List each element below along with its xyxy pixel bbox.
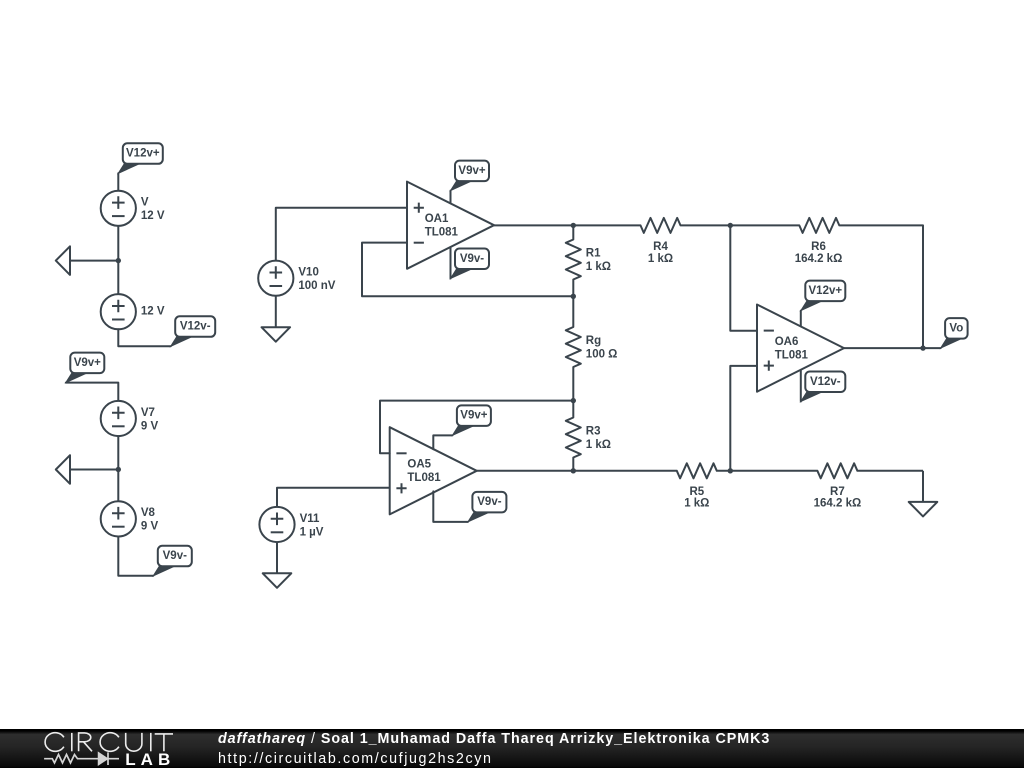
- wire V7 bottom to V8 top: [117, 436, 119, 501]
- ground at R7 right: [909, 471, 938, 517]
- wire OA1 V9v+ supply pin: [450, 191, 452, 204]
- svg-text:1 kΩ: 1 kΩ: [586, 261, 611, 273]
- svg-text:12 V: 12 V: [141, 210, 165, 222]
- wire V12v+ flag to V1 top: [117, 173, 119, 190]
- svg-text:Rg: Rg: [586, 335, 601, 347]
- junction dot R5/R7 node: [728, 468, 733, 473]
- wire V11 top to OA5 + input: [277, 488, 390, 507]
- svg-text:V11: V11: [300, 513, 320, 525]
- wire V2 bottom to V12v- flag: [118, 329, 170, 346]
- net flag V9v- (left): [153, 546, 192, 576]
- voltage source 12V (second): [101, 294, 165, 329]
- junction dot Rg bottom / R3 top: [571, 398, 576, 403]
- junction dot R4/R6 node: [728, 223, 733, 228]
- op-amp OA1 TL081: [407, 182, 494, 269]
- svg-text:100 nV: 100 nV: [298, 280, 335, 292]
- wire OA1 - input feedback to R1/Rg node: [362, 243, 573, 297]
- wire OA6 V12v- supply pin: [800, 370, 802, 402]
- net flag V9v- (OA5 supply): [468, 492, 507, 522]
- svg-text:V9v+: V9v+: [458, 165, 485, 177]
- ground under V11: [263, 542, 292, 588]
- wire V8 bottom to V9v- flag: [118, 537, 153, 576]
- op-amp OA5 TL081: [390, 427, 477, 514]
- svg-text:V9v+: V9v+: [460, 410, 487, 422]
- net flag V12v+ (OA6 supply): [801, 281, 846, 311]
- junction dot 9V midpoint: [116, 467, 121, 472]
- svg-text:164.2 kΩ: 164.2 kΩ: [795, 253, 843, 265]
- logo resistor and diode: [44, 752, 119, 765]
- resistor R4 label: [648, 241, 673, 265]
- net flag V9v- (OA1 supply): [451, 249, 490, 279]
- svg-text:TL081: TL081: [775, 349, 809, 361]
- net flag V9v+ (OA5 supply): [452, 405, 491, 435]
- svg-text:V9v-: V9v-: [460, 253, 484, 265]
- junction dot R1 bottom / Rg top: [571, 294, 576, 299]
- svg-text:V12v+: V12v+: [809, 285, 843, 297]
- svg-text:V12v-: V12v-: [810, 376, 841, 388]
- junction dot 12V midpoint: [116, 258, 121, 263]
- svg-text:1 kΩ: 1 kΩ: [684, 498, 709, 510]
- svg-text:OA5: OA5: [407, 459, 431, 471]
- wire V10 top to OA1 + input: [276, 208, 407, 261]
- voltage source V8 9V: [101, 501, 159, 536]
- svg-text:OA1: OA1: [425, 213, 449, 225]
- junction dot output node: [920, 345, 925, 350]
- net flag Vo: [941, 318, 968, 348]
- wire V1 bottom to V2 top: [117, 226, 119, 294]
- junction dot R1 top: [571, 223, 576, 228]
- junction dot R3 bottom: [571, 468, 576, 473]
- svg-text:V9v-: V9v-: [163, 550, 187, 562]
- net flag V9v+: [66, 353, 105, 383]
- voltage source V7 9V: [101, 401, 159, 436]
- svg-text:R5: R5: [689, 486, 704, 498]
- net flag V12v-: [171, 316, 216, 346]
- svg-text:R1: R1: [586, 248, 601, 260]
- svg-text:100 Ω: 100 Ω: [586, 348, 618, 360]
- wire V9v+ flag to V7 top: [66, 383, 119, 401]
- logo word CIRCUIT: [45, 733, 64, 752]
- resistor Rg 100: [566, 296, 618, 400]
- footer title line 1: [218, 732, 770, 746]
- wire OA1 output / R4 / R6 top run: [494, 218, 923, 348]
- wire OA1 V9v- supply pin: [450, 247, 452, 278]
- resistor R6 label: [795, 241, 843, 265]
- wire R5/R7 node to OA6 + input: [730, 366, 757, 471]
- svg-text:9 V: 9 V: [141, 420, 159, 432]
- net flag V12v+: [118, 143, 163, 173]
- svg-text:V12v-: V12v-: [180, 321, 211, 333]
- svg-text:LAB: LAB: [125, 750, 175, 768]
- svg-text:V9v+: V9v+: [74, 357, 101, 369]
- svg-text:OA6: OA6: [775, 336, 799, 348]
- wire OA6 output to Vo flag: [844, 347, 941, 349]
- svg-text:R7: R7: [830, 486, 845, 498]
- wire OA5 output / R5 / R7 bottom run: [477, 463, 923, 478]
- resistor R7 label: [814, 486, 862, 510]
- svg-text:TL081: TL081: [425, 226, 459, 238]
- wire OA5 V9v- supply pin: [433, 491, 468, 522]
- wire junction to left pointer (9V mid node): [70, 469, 118, 471]
- op-amp OA6 TL081: [757, 305, 844, 392]
- footer url line 2: [218, 752, 493, 766]
- svg-text:V10: V10: [298, 267, 318, 279]
- svg-text:V9v-: V9v-: [477, 496, 501, 508]
- wire OA6 V12v+ supply pin: [800, 311, 802, 327]
- wire R4/R6 node to OA6 - input: [730, 225, 757, 330]
- svg-text:R3: R3: [586, 426, 601, 438]
- svg-text:V7: V7: [141, 407, 155, 419]
- svg-text:V12v+: V12v+: [126, 148, 160, 160]
- resistor R3 1k: [566, 401, 611, 471]
- svg-text:Vo: Vo: [949, 322, 963, 334]
- wire junction to left pointer (12V mid node): [70, 260, 118, 262]
- ground under V10: [262, 296, 291, 342]
- svg-text:V: V: [141, 197, 149, 209]
- svg-text:R4: R4: [653, 241, 668, 253]
- svg-text:TL081: TL081: [407, 472, 441, 484]
- wire OA5 - input feedback to Rg/R3 node: [380, 401, 573, 454]
- resistor R5 label: [684, 486, 709, 510]
- svg-text:R6: R6: [811, 241, 826, 253]
- voltage source V11 1uV: [259, 507, 323, 542]
- wire OA5 V9v+ supply pin: [433, 435, 452, 449]
- resistor R1 1k: [566, 225, 611, 296]
- node pointer arrow (9V midpoint): [56, 455, 70, 484]
- CircuitLab logo: [0, 729, 200, 768]
- footer bar: [0, 729, 1024, 768]
- svg-text:1 kΩ: 1 kΩ: [586, 439, 611, 451]
- svg-text:12 V: 12 V: [141, 306, 165, 318]
- net flag V12v- (OA6 supply): [801, 372, 846, 402]
- svg-text:164.2 kΩ: 164.2 kΩ: [814, 498, 862, 510]
- net flag V9v+ (OA1 supply): [451, 161, 490, 191]
- svg-text:9 V: 9 V: [141, 521, 159, 533]
- voltage source V10 100nV: [258, 261, 336, 296]
- svg-text:1 µV: 1 µV: [300, 526, 324, 538]
- node pointer arrow (12V midpoint): [56, 246, 70, 275]
- svg-text:V8: V8: [141, 507, 156, 519]
- voltage source V 12V: [101, 191, 165, 226]
- svg-text:1 kΩ: 1 kΩ: [648, 253, 673, 265]
